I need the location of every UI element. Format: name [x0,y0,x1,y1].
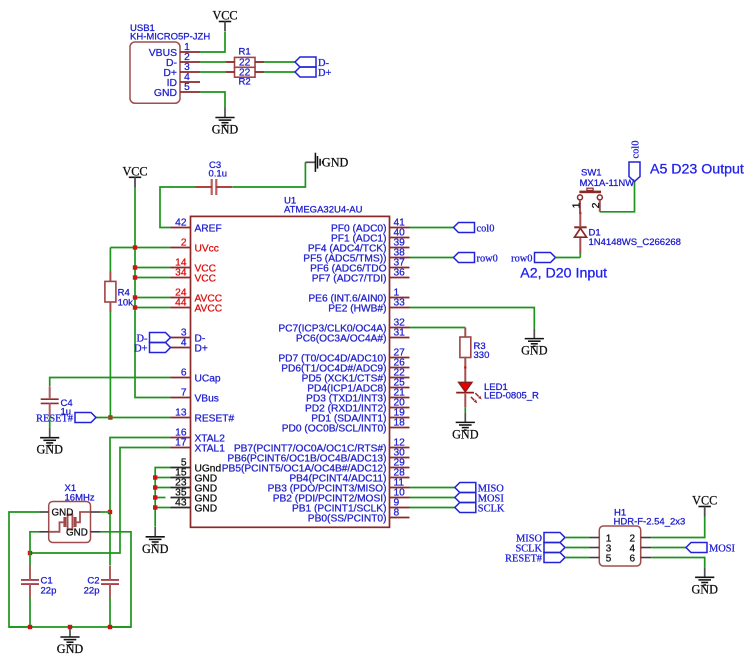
svg-text:36: 36 [394,268,406,279]
svg-text:GND: GND [52,508,74,519]
capacitor C3 0.1u [196,160,233,195]
svg-text:GND: GND [66,528,88,539]
wire USB D+ to R2 [200,71,226,73]
wire PB3 pin11 to MISO [410,487,455,489]
net flag row0 (PF5) [454,253,498,265]
junction R4/RESET [108,415,112,419]
svg-text:13: 13 [175,408,187,419]
wire xtal gnd rail [9,626,131,628]
H1 pins 5/6 [590,553,652,564]
switch SW1 MX1A-11NW [570,168,634,213]
U1 pin 43 GND [171,498,218,515]
wire rail to GND pin43 [155,507,170,509]
junction rail pin34 [133,275,137,279]
U1 pin 12 PB7 [234,438,410,455]
resistor R2 22 [226,67,264,87]
junction rail/UVcc [133,245,137,249]
svg-text:34: 34 [175,268,187,279]
svg-text:PC6(OC3A/OC4A#): PC6(OC3A/OC4A#) [296,333,387,344]
svg-text:18: 18 [394,418,406,429]
svg-text:31: 31 [394,328,406,339]
svg-text:22p: 22p [41,586,57,597]
U1 pin 4 D+ [171,338,208,355]
U1 pin 11 PB3 [268,478,410,495]
net flag MOSI (H1) [686,543,736,555]
svg-text:col0: col0 [630,141,641,159]
wire rail to GND pin15 [155,477,170,479]
svg-text:ATMEGA32U4-AU: ATMEGA32U4-AU [284,205,363,216]
ground GND (below USB1) [212,108,239,137]
svg-text:22p: 22p [84,586,100,597]
svg-text:row0: row0 [477,253,498,264]
U1 pin 34 VCC [171,268,217,285]
svg-text:A2, D20 Input: A2, D20 Input [520,266,607,282]
junction gnd rail pin15 [153,475,157,479]
svg-text:VCC: VCC [692,494,717,508]
wire X1 bottom-right pad to gnd [101,532,131,627]
junction rail pin24 [133,295,137,299]
U1 pin 7 VBus [171,388,219,405]
node SW1/D1 pin ends [579,212,581,214]
U1 pin 19 PD1 [311,408,409,425]
wire C2 to gnd rail [109,598,111,627]
svg-text:33: 33 [394,298,406,309]
LED LED1 LED-0805_R [456,382,539,403]
wire H1 pin2 to VCC [651,517,704,538]
USB1 pin 5 GND [154,82,200,99]
svg-text:PD0 (OC0B/SCL/INT0): PD0 (OC0B/SCL/INT0) [282,423,387,434]
wire rail to GND pin23 [155,487,170,489]
wire UVcc corner down to R4 [109,248,111,272]
wire XTAL2 pin16 to crystal [110,438,171,566]
USB1 pin 2 D- [166,52,200,69]
ground GND (PE2) [521,329,548,358]
svg-text:GND: GND [57,642,84,656]
svg-text:17: 17 [175,438,187,449]
svg-text:GND: GND [36,443,63,457]
svg-text:LED-0805_R: LED-0805_R [484,391,539,402]
U1 pin 2 UVcc [171,238,219,255]
svg-text:GND: GND [212,123,239,137]
U1 pin 14 VCC [171,258,217,275]
U1 pin 24 AVCC [171,288,223,305]
wire R1 to flag D- [264,61,295,63]
svg-text:1: 1 [570,202,582,208]
wire PE2 pin33 to GND [410,308,535,329]
U1 pin 26 PD6 [281,358,409,375]
svg-text:5: 5 [184,82,190,93]
svg-text:VCC: VCC [122,164,147,178]
svg-text:PF7 (ADC7/TDI): PF7 (ADC7/TDI) [312,273,387,284]
wire rail to AVCC pin24 [135,297,171,299]
junction crystal top-right [108,510,112,514]
svg-text:RESET#: RESET# [505,553,542,564]
U1 pin 17 XTAL1 [171,438,226,455]
net flag MISO (H1) [516,533,565,545]
wire PB1 pin9 to SCLK [410,507,455,509]
svg-text:GND: GND [195,503,218,514]
capacitor C4 1u [41,386,73,417]
net flag D+ (U1 side) [134,343,170,355]
U1 pin 36 PF7 [312,268,410,285]
ground GND (right of C3) [305,153,348,172]
svg-text:UVcc: UVcc [195,243,219,254]
wire LED1 to GND [464,394,466,408]
svg-text:VBus: VBus [195,393,219,404]
wire PC7 pin32 to R3 [410,327,466,329]
net flag MISO (PB3) [455,483,504,495]
junction XTAL1/C1 [28,551,32,555]
svg-text:5: 5 [606,553,612,564]
resistor R3 330 [460,328,489,362]
net flag RESET# (H1) [505,553,565,565]
wire rail to GND pin35 (short) [155,497,165,499]
svg-text:GND: GND [521,344,548,358]
svg-text:330: 330 [474,350,490,361]
svg-text:XTAL1: XTAL1 [195,443,226,454]
wire RESET# to H1 pin5 [565,557,590,559]
svg-text:MX1A-11NW: MX1A-11NW [580,178,635,189]
H1 pins 3/4 [590,543,652,554]
net flag RESET# (at C4) [36,413,96,425]
net flag SCLK (H1) [515,543,565,555]
X1 pin bottom-right GND pad [91,531,101,533]
svg-text:SCLK: SCLK [478,503,505,514]
U1 pin 40 PF1 [331,228,409,245]
wire C3 to GND flag [233,162,306,187]
wire VCC rail vertical [135,187,171,398]
U1 pin 18 PD0 [282,418,410,435]
wire RESET row [96,417,171,419]
crystal X1 16MHz [49,483,95,543]
svg-text:D+: D+ [318,68,332,79]
net flag col0 (switch) [629,141,641,182]
wire H1 pin6 to GND [651,558,704,568]
U1 pin 44 AVCC [171,298,223,315]
svg-text:AVCC: AVCC [195,303,223,314]
wire PF5 pin38 to row0 [410,257,454,259]
svg-text:1u: 1u [61,407,72,418]
U1 pin 28 PB4 [289,468,409,485]
wire R2 to flag D+ [264,71,295,73]
wire AREF pin42 to C3 [160,187,196,228]
wire H1 pin4 to MOSI [651,547,686,549]
svg-text:R1: R1 [239,47,251,58]
wire PB2 pin10 to MOSI [410,497,455,499]
svg-text:GND: GND [322,155,349,169]
wire VBUS pin1 to VCC [200,32,225,52]
junction C1/gnd rail [28,625,32,629]
net flag row0 (switch) [511,253,555,265]
wire USB GND pin5 [200,92,225,108]
svg-text:GND: GND [142,542,169,556]
svg-text:D+: D+ [195,343,208,354]
svg-text:2: 2 [181,238,187,249]
wire C4 to GND [49,417,51,428]
svg-text:4: 4 [181,338,187,349]
U1 pin 25 PD4 [307,378,409,395]
svg-text:VCC: VCC [195,273,217,284]
connector H1 HDR-F-2.54_2x3 [599,507,685,566]
wire X1 bottom-left to C1 [30,532,40,566]
svg-text:42: 42 [175,218,187,229]
wire rail to VCC pin14 [135,267,171,269]
wire rail to VCC pin34 [135,277,171,279]
svg-text:D+: D+ [134,343,148,354]
junction C2/gnd rail [108,625,112,629]
U1 pin 10 PB2 [273,488,410,505]
net flag MOSI (PB2) [455,493,505,505]
svg-text:7: 7 [181,388,187,399]
node R3/LED pin ends [464,366,466,368]
wire XTAL1 pin17 [30,448,171,554]
X1 pin top-right [91,511,101,513]
svg-text:col0: col0 [477,223,495,234]
wire MISO to H1 pin1 [565,537,590,539]
net flag D+ (USB side) [295,67,332,79]
U1 pin 41 PF0 [331,218,409,235]
svg-text:GND: GND [154,88,177,99]
junction rail pin44 [133,305,137,309]
svg-text:44: 44 [175,298,187,309]
junction gnd symbol/rail [68,625,72,629]
wire USB D- to R1 [200,61,226,63]
U1 pin 37 PF6 [310,258,409,275]
H1 pins 1/2 [590,533,652,544]
U1 pin 20 PD2 [305,398,410,415]
U1 pin 38 PF5 [303,248,409,265]
resistor R1 22 [226,47,264,69]
X1 pin bottom-left [40,531,49,533]
U1 pin 39 PF4 [308,238,410,255]
svg-text:RESET#: RESET# [195,413,235,424]
U1 pin 5 UGnd [171,458,222,475]
wire rail to AVCC pin44 [135,307,171,309]
junction rail pin14 [133,265,137,269]
wire PF0 pin41 to col0 [410,227,454,229]
U1 pin 1 PE6 [308,288,409,305]
svg-text:1N4148WS_C266268: 1N4148WS_C266268 [589,237,681,248]
svg-text:2: 2 [590,202,602,208]
U1 pin 16 XTAL2 [171,428,226,445]
svg-text:43: 43 [175,498,187,509]
svg-text:6: 6 [630,553,636,564]
U1 pin 21 PD3 [306,388,409,405]
USB1 pin 4 ID [167,72,200,89]
wire UGnd pin5 to gnd rail [155,468,170,527]
wire R4 to RESET net [109,312,111,418]
U1 pin 31 PC6 [296,328,410,345]
ground GND (LED1) [452,412,479,441]
junction gnd rail pin43 [153,505,157,509]
U1 pin 6 UCap [171,368,221,385]
svg-text:row0: row0 [511,253,532,264]
wire X1 top-right to junction [101,511,110,513]
power VCC (H1) [692,494,717,517]
U1 pin 15 GND [171,468,218,485]
wire row0 to D1 [556,257,581,259]
power VCC (USB VBUS) [212,9,237,32]
net flag D- (USB side) [295,57,330,69]
junction gnd rail pin23 [153,485,157,489]
wire SW1 pin2 to col0 [600,181,635,212]
svg-text:8: 8 [394,508,400,519]
capacitor C1 22p [21,566,56,598]
USB1 pin 1 VBUS [149,42,200,59]
svg-text:MOSI: MOSI [709,543,736,554]
svg-text:GND: GND [452,427,479,441]
capacitor C2 22p [84,566,119,598]
wire rail to UVcc pin2 [110,247,170,249]
svg-text:AREF: AREF [195,223,222,234]
net flag D- (U1 side) [137,333,171,345]
svg-text:PE2 (HWB#): PE2 (HWB#) [328,303,386,314]
U1 pin 3 D- [171,328,206,345]
diode D1 1N4148WS_C266268 [574,213,681,248]
svg-text:10k: 10k [118,298,134,309]
U1 pin 13 RESET# [171,408,235,425]
svg-text:UCap: UCap [195,373,221,384]
U1 pin 8 PB0 [308,508,410,525]
wire C1 to gnd rail [29,598,31,627]
U1 pin 30 PB6 [227,448,409,465]
connector USB1 KH-MICRO5P-JZH [130,23,210,103]
svg-text:A5 D23 Output: A5 D23 Output [650,162,744,178]
resistor R4 10k [105,272,133,313]
wire SCLK to H1 pin3 [565,547,590,549]
wire R3 to LED1 [464,358,466,383]
svg-text:0.1u: 0.1u [209,169,228,180]
svg-text:VCC: VCC [212,9,237,23]
U1 pin 32 PC7 [278,318,409,335]
svg-text:R2: R2 [239,77,251,88]
U1 pin 27 PD7 [278,348,409,365]
wire UCap pin6 to C4 [50,378,171,387]
ground GND (U1 gnd pins) [142,527,169,556]
U1 pin 22 PD5 [302,368,410,385]
svg-text:KH-MICRO5P-JZH: KH-MICRO5P-JZH [130,32,210,43]
U1 pin 29 PB5 [222,458,410,475]
ground GND (xtal) [57,627,84,656]
U1 pin 9 PB1 [292,498,410,515]
op-amp U1 ATMEGA32U4-AU body [191,196,390,528]
power VCC (main rail) [122,164,147,187]
wire X1 top-left pad to gnd rail [9,512,40,627]
U1 pin 23 GND [171,478,218,495]
junction gnd rail pin35 [153,495,157,499]
net flag col0 (PF0) [454,223,495,235]
U1 pin 33 PE2 [328,298,409,315]
ground GND (below C4) [36,428,63,457]
U1 pin 42 AREF [171,218,222,235]
ground GND (H1) [691,567,718,596]
svg-text:GND: GND [691,582,718,596]
U1 pin 35 GND [171,488,218,505]
svg-text:PB0(SS/PCINT0): PB0(SS/PCINT0) [308,513,387,524]
svg-text:6: 6 [181,368,187,379]
net flag SCLK (PB1) [455,503,505,515]
USB1 pin 3 D+ [163,62,200,79]
X1 pin top-left GND pad [40,511,49,513]
